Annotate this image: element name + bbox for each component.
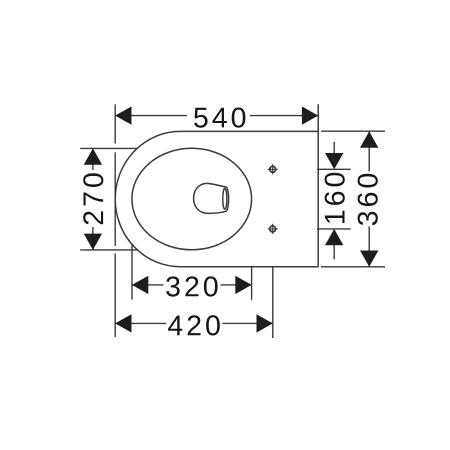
dimension 160 bottom arrow [325,229,343,245]
dimension 420 left arrow [115,314,131,332]
dimension 360 bottom arrow [360,251,378,267]
label 320 [166,276,217,296]
toilet outer body outline [115,131,318,266]
dimension 320 right arrow [235,276,251,294]
dimension 360 top arrow [360,131,378,147]
dimension 420 right arrow [257,314,273,332]
dimension 360 line [368,131,370,266]
dimension 270 line [92,148,94,250]
dimension 270 extension bottom [80,249,138,251]
dimension 360 extension top [321,130,385,132]
dimension 270 top arrow [84,148,102,164]
dimension 420 line [115,322,273,324]
label 540 [194,108,245,128]
dimension 540 left arrow [115,106,131,124]
dimension 160 extension top [317,168,351,170]
extension line left vertical (540/420) [114,104,116,337]
extension line right vertical / body back edge [317,104,319,266]
dimension 540 line [115,115,318,117]
dimension 270 bottom arrow [84,234,102,250]
dimension 320 extension right [251,267,253,300]
dimension 360 extension bottom [321,266,385,268]
mounting hole top crosshair [268,164,278,174]
label 160 [325,173,345,223]
dimension 320 extension left [131,244,133,300]
inner rim ellipse [132,148,252,250]
label 360 [358,174,378,225]
dimension 270 extension top [80,147,137,149]
dimension 160 top arrow [325,153,343,169]
dimension 320 line [132,284,252,286]
dimension 160 extension bottom [317,228,351,230]
label 270 [83,173,103,224]
mounting hole bottom crosshair [268,224,278,234]
flush outlet shape [194,183,229,213]
label 420 [168,315,220,335]
dimension 420 extension right [272,267,274,338]
dimension 540 right arrow [302,106,318,124]
dimension 320 left arrow [132,276,148,294]
dimension 160 stems [333,142,335,259]
